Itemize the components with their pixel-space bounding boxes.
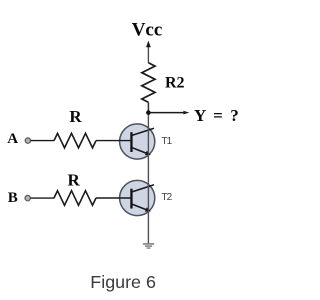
resistor R (input A) <box>54 133 96 148</box>
svg-text:R: R <box>68 171 81 190</box>
svg-text:Y = ?: Y = ? <box>194 106 239 125</box>
svg-text:T2: T2 <box>162 192 173 203</box>
svg-text:A: A <box>7 131 18 147</box>
svg-text:T1: T1 <box>162 136 173 147</box>
svg-text:R2: R2 <box>165 74 185 91</box>
svg-text:B: B <box>8 190 18 206</box>
svg-text:Vcc: Vcc <box>132 19 163 40</box>
wire resistor A to T1 base <box>96 140 132 142</box>
input A terminal <box>25 138 30 143</box>
transistor T1 <box>120 124 155 159</box>
ground <box>143 243 154 249</box>
wire to Vcc with up arrow <box>146 41 151 63</box>
wire output with right arrow <box>148 111 189 115</box>
transistor T2 <box>120 180 155 215</box>
resistor R2 <box>142 63 155 103</box>
wire B terminal to resistor <box>31 197 55 199</box>
node Y junction dot <box>146 110 151 115</box>
resistor R (input B) <box>54 191 96 206</box>
wire A terminal to resistor <box>31 140 54 142</box>
svg-text:Figure 6: Figure 6 <box>90 272 156 292</box>
input B terminal <box>25 195 30 200</box>
wire vertical rail <box>147 113 149 244</box>
wire R2 bottom to node Y <box>147 102 149 112</box>
wire resistor B to T2 base <box>96 197 132 199</box>
svg-text:R: R <box>69 107 82 126</box>
